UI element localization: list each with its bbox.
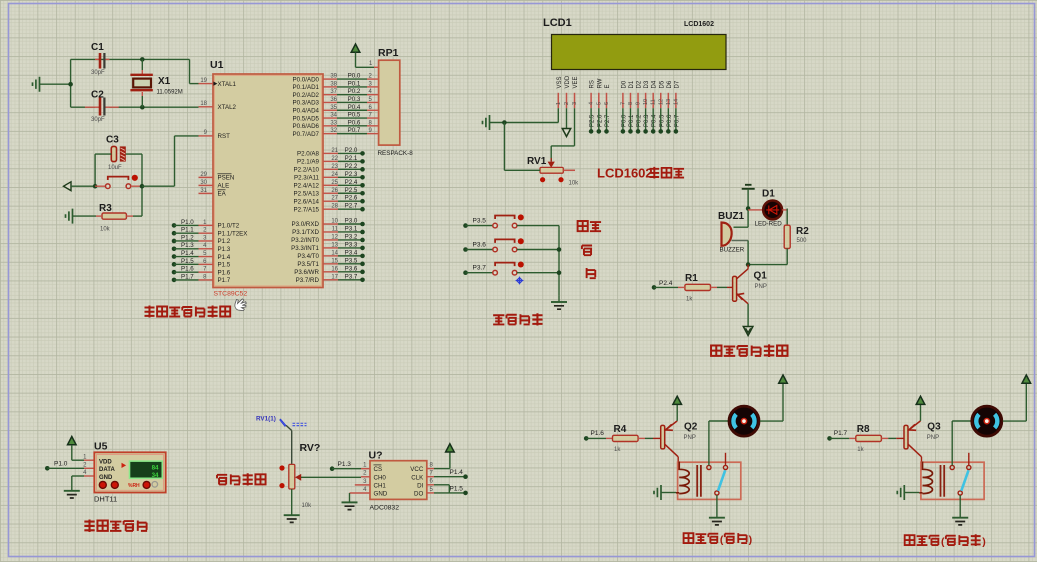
label 继电器(风扇) xyxy=(684,533,694,543)
svg-text:10k: 10k xyxy=(100,227,111,233)
pin 19 XTAL1 xyxy=(199,83,214,85)
svg-text:10: 10 xyxy=(643,99,649,105)
svg-text:D3: D3 xyxy=(644,80,650,88)
svg-text:P0.5: P0.5 xyxy=(348,112,361,119)
node P1.4 (ADC CLK pin 7) xyxy=(427,476,434,478)
svg-text:P2.2: P2.2 xyxy=(345,163,358,170)
relay NO stub xyxy=(968,453,970,466)
svg-text:VDD: VDD xyxy=(99,459,112,465)
svg-text:P1.6: P1.6 xyxy=(591,430,605,437)
svg-text:RV1: RV1 xyxy=(527,156,547,167)
power arrow (motor) xyxy=(1022,375,1031,383)
RV1 adjust dots xyxy=(540,177,545,182)
svg-text:P2.6/A14: P2.6/A14 xyxy=(294,198,320,205)
svg-text:P2.5: P2.5 xyxy=(345,187,358,194)
svg-text:11.0592M: 11.0592M xyxy=(157,90,183,96)
svg-text:13: 13 xyxy=(331,242,338,248)
ground (relay coil, rotated) xyxy=(897,485,904,500)
relay coil xyxy=(923,462,933,494)
svg-text:P3.6/WR: P3.6/WR xyxy=(294,269,319,276)
power arrow (Q2) xyxy=(673,396,682,404)
ground (LCD VSS, rotated) xyxy=(483,115,490,130)
svg-text:8: 8 xyxy=(628,102,634,105)
svg-text:P0.3/AD3: P0.3/AD3 xyxy=(293,100,320,107)
svg-text:Q2: Q2 xyxy=(684,422,698,433)
power arrow (RP1) xyxy=(351,44,360,52)
svg-text:P3.2: P3.2 xyxy=(345,233,358,240)
svg-text:26: 26 xyxy=(331,188,338,194)
wire emitter to ground arrow xyxy=(747,304,749,326)
svg-text:): ) xyxy=(749,534,753,546)
wire buzzer terminals xyxy=(734,226,749,228)
svg-text:EA: EA xyxy=(218,191,227,198)
capacitor C1 xyxy=(95,58,99,60)
svg-text:10: 10 xyxy=(331,219,338,225)
svg-text:17: 17 xyxy=(331,274,338,280)
svg-text:P1.7: P1.7 xyxy=(834,430,848,437)
svg-text:R4: R4 xyxy=(614,424,627,435)
wire emitter to power xyxy=(920,405,922,421)
power arrow (Q3) xyxy=(916,396,925,404)
node P1.4 (pin 5) xyxy=(172,254,177,259)
ground (relay coil, rotated) xyxy=(654,485,661,500)
svg-text:PNP: PNP xyxy=(755,284,767,290)
ground (ADC) xyxy=(342,501,358,503)
svg-text:P0.4/AD4: P0.4/AD4 xyxy=(293,107,320,114)
svg-text:11: 11 xyxy=(332,226,339,232)
svg-text:VSS: VSS xyxy=(557,76,563,88)
wire R3 right xyxy=(126,215,133,217)
svg-text:P3.6: P3.6 xyxy=(473,241,487,248)
ground (relay switch) xyxy=(709,517,725,519)
svg-text:LED-RED: LED-RED xyxy=(755,221,783,228)
svg-text:C2: C2 xyxy=(91,90,104,101)
svg-text:P1.4: P1.4 xyxy=(181,250,194,257)
svg-text:33: 33 xyxy=(330,120,337,126)
svg-text:E: E xyxy=(605,84,611,88)
svg-text:RESPACK-8: RESPACK-8 xyxy=(378,150,414,157)
node P1.5 (ADC DO pin 5) xyxy=(427,492,434,494)
pin 9 RST xyxy=(199,135,214,137)
svg-text:14: 14 xyxy=(331,250,338,256)
svg-text:P0.1: P0.1 xyxy=(348,80,361,87)
wire top row to XTAL1 xyxy=(71,58,190,60)
wire ground to coil xyxy=(904,492,919,494)
svg-text:P1.3: P1.3 xyxy=(181,242,194,249)
svg-text:23: 23 xyxy=(331,164,338,170)
svg-text:7: 7 xyxy=(620,102,626,105)
node P1.0 (DHT DATA pin 2) xyxy=(45,466,50,471)
wire RV1 left to VSS net xyxy=(503,123,505,171)
svg-text:P0.6: P0.6 xyxy=(348,119,361,126)
svg-text:D4: D4 xyxy=(652,80,658,88)
svg-text:P2.5/A13: P2.5/A13 xyxy=(294,190,320,197)
svg-text:BUZ1: BUZ1 xyxy=(718,211,745,222)
svg-text:PSEN: PSEN xyxy=(218,175,235,182)
svg-text:STC89C52: STC89C52 xyxy=(214,291,248,298)
relay coil xyxy=(679,462,689,494)
pin 18 XTAL2 xyxy=(199,106,214,108)
svg-text:P2.2/A10: P2.2/A10 xyxy=(294,167,320,174)
resistor-pack RP1 xyxy=(379,60,400,145)
push button (reset) xyxy=(106,184,111,189)
label 羊值调节 xyxy=(217,475,227,485)
wire button to common xyxy=(517,272,559,274)
svg-text:D5: D5 xyxy=(659,80,665,88)
svg-text:P2.0/A8: P2.0/A8 xyxy=(297,151,320,158)
op U1 STC89C52 body xyxy=(213,74,323,288)
svg-text:RST: RST xyxy=(218,133,231,140)
wire switch common to ground xyxy=(716,495,718,517)
svg-text:15: 15 xyxy=(331,258,338,264)
svg-text:21: 21 xyxy=(331,148,338,154)
power arrow down (LCD VDD) xyxy=(566,108,568,129)
svg-text:PNP: PNP xyxy=(684,435,696,441)
svg-text:CS: CS xyxy=(374,466,383,473)
svg-text:R1: R1 xyxy=(685,273,698,284)
svg-text:CH0: CH0 xyxy=(374,474,387,481)
svg-text:P1.5: P1.5 xyxy=(450,485,464,492)
svg-text:P1.1: P1.1 xyxy=(181,227,194,234)
label 加 xyxy=(582,246,592,256)
svg-text:LCD1: LCD1 xyxy=(543,17,572,29)
svg-text:D2: D2 xyxy=(637,80,643,88)
svg-text:C3: C3 xyxy=(106,135,119,146)
svg-text:P2.1: P2.1 xyxy=(345,155,358,162)
wire power to RP1 pin 1 xyxy=(355,53,357,68)
svg-text:3: 3 xyxy=(572,102,578,105)
node P1.3 (pin 4) xyxy=(172,246,177,251)
svg-text:P3.4/T0: P3.4/T0 xyxy=(297,253,319,260)
ground arrow (reset, pointing left) xyxy=(64,182,72,191)
svg-text:P2.4/A12: P2.4/A12 xyxy=(294,182,320,189)
node junction at C1/C2 branch xyxy=(70,59,72,107)
svg-text:P2.1/A9: P2.1/A9 xyxy=(297,159,320,166)
svg-text:P3.6: P3.6 xyxy=(345,265,358,272)
svg-text:X1: X1 xyxy=(158,76,171,87)
svg-text:P1.6: P1.6 xyxy=(218,269,231,276)
svg-text:30pF: 30pF xyxy=(91,70,105,76)
svg-text:VDD: VDD xyxy=(565,75,571,88)
wire collector to relay coil xyxy=(921,457,923,462)
svg-text:10k: 10k xyxy=(569,181,580,187)
svg-text:R8: R8 xyxy=(857,424,870,435)
svg-text:U5: U5 xyxy=(94,441,108,453)
svg-text:P1.4: P1.4 xyxy=(450,469,464,476)
wire to base xyxy=(881,437,888,439)
relay NO stub xyxy=(725,453,727,466)
svg-text:P1.0: P1.0 xyxy=(181,219,194,226)
svg-text:5: 5 xyxy=(596,102,602,105)
label 独立按键 xyxy=(493,315,504,324)
svg-text:4: 4 xyxy=(589,102,595,105)
svg-text:(: ( xyxy=(720,534,724,546)
svg-text:P2.3: P2.3 xyxy=(345,171,358,178)
motor xyxy=(729,406,759,436)
svg-text:34: 34 xyxy=(330,113,337,119)
svg-text:10k: 10k xyxy=(302,503,313,509)
wire button to common xyxy=(517,249,559,251)
svg-text:P2.7: P2.7 xyxy=(345,203,358,210)
wire junction to RST riser xyxy=(142,185,175,187)
svg-text:VEE: VEE xyxy=(573,76,579,88)
label 温湿度模块 xyxy=(84,520,94,532)
svg-text:P1.7: P1.7 xyxy=(181,273,194,280)
ground (R3 left, rotated) xyxy=(66,209,73,224)
svg-text:(: ( xyxy=(941,536,945,548)
node P1.1 (pin 2) xyxy=(172,231,177,236)
svg-text:1k: 1k xyxy=(686,297,693,303)
svg-text:P3.7/RD: P3.7/RD xyxy=(296,277,320,284)
svg-text:P1.7: P1.7 xyxy=(218,277,231,284)
svg-text:P1.3: P1.3 xyxy=(218,246,231,253)
pin 31 EA xyxy=(199,192,214,194)
svg-text:GND: GND xyxy=(374,491,388,498)
svg-text:32: 32 xyxy=(330,128,337,134)
capacitor C2 xyxy=(85,106,99,108)
svg-text:27: 27 xyxy=(331,196,338,202)
wire bottom row (C2/XTAL2) xyxy=(71,106,95,108)
svg-text:P1.4: P1.4 xyxy=(218,254,231,261)
relay switch lever (cyan) xyxy=(718,470,725,491)
wire ground to coil xyxy=(661,492,676,494)
svg-text:U1: U1 xyxy=(210,59,224,71)
node P1.6 (pin 7) xyxy=(172,270,177,275)
svg-text:2: 2 xyxy=(564,102,570,105)
push button 3 xyxy=(493,270,498,275)
wire emitter to power xyxy=(676,405,678,421)
svg-text:37: 37 xyxy=(330,89,337,95)
svg-text:10uF: 10uF xyxy=(108,165,122,171)
ground arrow down (Q1) xyxy=(743,327,753,336)
svg-text:P0.3: P0.3 xyxy=(348,96,361,103)
power arrow (motor) xyxy=(779,375,788,383)
power arrow (DHT11 VDD) xyxy=(68,437,77,445)
svg-text:P0.0: P0.0 xyxy=(348,73,361,80)
svg-text:DO: DO xyxy=(414,491,423,498)
node P1.7 (pin 8) xyxy=(172,278,177,283)
DHT display window xyxy=(130,461,163,478)
wire common button net xyxy=(558,226,560,296)
svg-text:P0.2: P0.2 xyxy=(348,88,361,95)
svg-text:DATA: DATA xyxy=(99,467,115,473)
wire ground to junction xyxy=(40,83,71,85)
svg-text:RV1(1): RV1(1) xyxy=(256,416,276,423)
svg-text:P3.3: P3.3 xyxy=(345,241,358,248)
relay box xyxy=(921,462,984,499)
wire switch common to ground xyxy=(959,495,961,517)
svg-text:C1: C1 xyxy=(91,42,104,53)
svg-text:P3.5/T1: P3.5/T1 xyxy=(297,261,319,268)
svg-text:P2.7/A15: P2.7/A15 xyxy=(294,206,320,213)
wire arrow to button xyxy=(71,185,95,187)
svg-text:P2.4: P2.4 xyxy=(659,280,673,287)
svg-text:PNP: PNP xyxy=(927,435,939,441)
svg-text:XTAL2: XTAL2 xyxy=(218,104,237,111)
svg-text:P3.2/INT0: P3.2/INT0 xyxy=(291,237,319,244)
label 继电器(净化器) xyxy=(905,535,915,545)
svg-text:34: 34 xyxy=(152,472,159,479)
svg-text:ADC0832: ADC0832 xyxy=(370,505,400,512)
svg-text:Q3: Q3 xyxy=(927,422,941,433)
svg-text:VCC: VCC xyxy=(410,466,424,473)
origin marker (blue) xyxy=(516,277,524,285)
svg-text:RW: RW xyxy=(597,78,603,88)
svg-text:22: 22 xyxy=(331,156,338,162)
svg-text:P1.2: P1.2 xyxy=(181,234,194,241)
svg-text:P0.0/AD0: P0.0/AD0 xyxy=(293,76,320,83)
DHT indicator LEDs xyxy=(99,481,106,488)
svg-text:D1: D1 xyxy=(629,80,635,88)
pin 8 VCC to power xyxy=(427,468,434,470)
svg-text:DI: DI xyxy=(417,482,423,489)
svg-text:500: 500 xyxy=(797,238,808,244)
wire DI joins DO (pins 6,5) xyxy=(427,484,434,486)
svg-text:CLK: CLK xyxy=(411,474,424,481)
motor xyxy=(972,406,1002,436)
svg-text:RS: RS xyxy=(590,80,596,88)
svg-text:P0.7: P0.7 xyxy=(348,127,361,134)
svg-text:84: 84 xyxy=(152,464,159,471)
ground (DHT11) xyxy=(64,490,80,492)
svg-text:RV?: RV? xyxy=(300,442,321,454)
svg-text:35: 35 xyxy=(330,105,337,111)
svg-text:P2.6: P2.6 xyxy=(345,195,358,202)
svg-text:P0.4: P0.4 xyxy=(348,104,361,111)
svg-text:DHT11: DHT11 xyxy=(94,495,117,504)
svg-text:P0.6/AD6: P0.6/AD6 xyxy=(293,123,320,130)
svg-text:P1.5: P1.5 xyxy=(218,262,231,269)
relay switch lever (cyan) xyxy=(961,470,968,491)
svg-text:D1: D1 xyxy=(762,189,775,200)
svg-text:P1.6: P1.6 xyxy=(181,266,194,273)
ground (RV2) xyxy=(284,514,300,516)
svg-text:P1.3: P1.3 xyxy=(338,461,352,468)
node P1.6 xyxy=(584,436,589,441)
svg-text:1k: 1k xyxy=(857,447,864,453)
wire C3 left leg xyxy=(95,153,111,155)
svg-text:18: 18 xyxy=(200,101,207,107)
power arrow (ADC VCC) xyxy=(446,444,455,452)
pin 30 ALE xyxy=(199,184,214,186)
svg-text:D7: D7 xyxy=(674,80,680,88)
node P3.6 (button row) xyxy=(463,247,468,252)
node P1.2 (pin 3) xyxy=(172,239,177,244)
relay switch terminals xyxy=(707,465,711,469)
svg-text:D0: D0 xyxy=(621,80,627,88)
svg-text:P3.3/INT1: P3.3/INT1 xyxy=(291,245,319,252)
pin 4 GND to ground xyxy=(350,492,371,494)
svg-text:13: 13 xyxy=(666,99,672,105)
svg-text:R2: R2 xyxy=(796,226,809,237)
svg-text:P1.0: P1.0 xyxy=(54,460,68,467)
svg-text:36: 36 xyxy=(330,97,337,103)
label 单片机最小系统 xyxy=(145,306,155,318)
wire R3 left xyxy=(73,215,97,217)
svg-text:1k: 1k xyxy=(614,447,621,453)
svg-text:P1.5: P1.5 xyxy=(181,258,194,265)
svg-text:P0.5/AD5: P0.5/AD5 xyxy=(293,115,320,122)
svg-text:P3.0/RXD: P3.0/RXD xyxy=(291,221,319,228)
svg-text:RP1: RP1 xyxy=(378,47,399,59)
svg-text:D6: D6 xyxy=(667,80,673,88)
svg-text:9: 9 xyxy=(636,102,642,105)
svg-text:P3.7: P3.7 xyxy=(345,273,358,280)
svg-text:LCD1602: LCD1602 xyxy=(684,21,714,28)
svg-text:CH1: CH1 xyxy=(374,482,387,489)
svg-text:P3.1: P3.1 xyxy=(345,225,358,232)
svg-text:14: 14 xyxy=(673,99,679,105)
wire C3 right leg down to R3 xyxy=(126,153,142,155)
svg-text:XTAL1: XTAL1 xyxy=(218,81,237,88)
wire power to LED junction xyxy=(747,189,749,227)
wire button right to junction xyxy=(131,185,142,187)
node P3.7 (button row) xyxy=(463,270,468,275)
wire motor to power xyxy=(760,420,783,422)
svg-text:16: 16 xyxy=(331,266,338,272)
svg-text:LCD1602: LCD1602 xyxy=(597,166,653,181)
node P2.4 xyxy=(652,285,657,290)
svg-text:P2.4: P2.4 xyxy=(345,179,358,186)
pin 3 CH1 stub xyxy=(355,484,370,486)
wire RV2 wiper to CH0 (pin 2) xyxy=(301,476,361,478)
power rail symbol (alarm top) xyxy=(742,185,755,189)
svg-text:U?: U? xyxy=(369,450,383,462)
svg-text:11: 11 xyxy=(651,99,657,105)
ground (buttons) xyxy=(558,296,560,302)
svg-text:24: 24 xyxy=(331,172,338,178)
svg-text:19: 19 xyxy=(200,78,207,84)
wire power to VDD pin xyxy=(71,445,73,460)
wire collector to relay coil xyxy=(677,457,679,462)
svg-text:38: 38 xyxy=(330,81,337,87)
svg-text:P3.1/TXD: P3.1/TXD xyxy=(292,229,319,236)
wire R2 to collector junction xyxy=(786,249,788,265)
wire VSS to ground xyxy=(557,108,559,122)
svg-text:P3.7: P3.7 xyxy=(473,265,487,272)
svg-text:%RH: %RH xyxy=(128,483,140,489)
label 设置 xyxy=(578,221,588,231)
svg-text:): ) xyxy=(982,536,986,548)
svg-text:12: 12 xyxy=(658,99,664,105)
svg-text:31: 31 xyxy=(200,188,207,194)
svg-text:25: 25 xyxy=(331,180,338,186)
mouse hand cursor xyxy=(235,299,246,311)
svg-text:P1.0/T2: P1.0/T2 xyxy=(218,223,240,230)
wire VEE to RV1 wiper xyxy=(574,108,576,146)
svg-text:29: 29 xyxy=(200,172,207,178)
wire probe to RV2 xyxy=(286,425,292,430)
push button 1 xyxy=(493,223,498,228)
svg-text:ALE: ALE xyxy=(218,183,230,190)
label 减 xyxy=(587,268,596,278)
wire LED to R2 xyxy=(782,209,787,211)
node P1.5 (pin 6) xyxy=(172,262,177,267)
svg-text:30: 30 xyxy=(200,180,207,186)
label 声光报警电路 xyxy=(711,345,721,355)
svg-text:28: 28 xyxy=(331,204,338,210)
pin 4 (DHT GND) to ground xyxy=(84,475,94,477)
crystal X1 xyxy=(140,57,145,62)
svg-text:P0.2/AD2: P0.2/AD2 xyxy=(293,92,320,99)
svg-text:P0.1/AD1: P0.1/AD1 xyxy=(293,84,320,91)
ground (relay switch) xyxy=(952,517,968,519)
RV1 right stub xyxy=(563,169,575,171)
relay box xyxy=(678,462,741,499)
svg-text:P1.2: P1.2 xyxy=(218,238,231,245)
node P3.5 (button row) xyxy=(463,223,468,228)
relay switch terminals xyxy=(950,465,954,469)
